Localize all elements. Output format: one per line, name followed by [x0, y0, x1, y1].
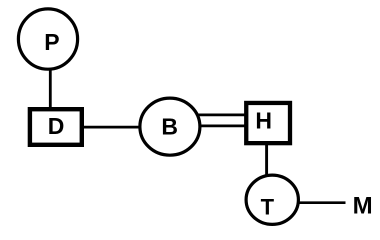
wire H to T	[265, 143, 268, 178]
svg-text:P: P	[44, 29, 59, 55]
wire D to B	[82, 126, 141, 129]
node D square	[30, 109, 82, 145]
svg-text:T: T	[261, 195, 275, 220]
node T circle	[246, 175, 298, 224]
svg-text:M: M	[353, 192, 373, 219]
wire P to D	[49, 66, 52, 110]
wire B to H double line upper	[197, 114, 246, 117]
node B circle	[140, 98, 200, 155]
node P circle	[18, 9, 77, 69]
svg-text:B: B	[161, 114, 178, 140]
svg-text:H: H	[255, 108, 272, 134]
wire B to H double line lower	[197, 125, 246, 128]
node H square	[246, 103, 290, 143]
svg-text:D: D	[48, 113, 65, 139]
wire T to M	[297, 201, 346, 204]
